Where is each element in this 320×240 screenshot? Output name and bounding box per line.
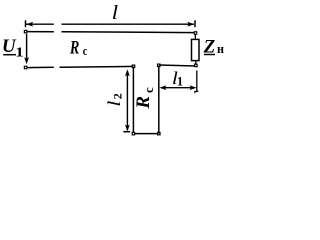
label U1 <box>2 36 24 59</box>
svg-text:с: с <box>83 43 88 58</box>
node load bottom terminal <box>195 64 198 67</box>
svg-text:1: 1 <box>177 75 183 89</box>
node input top terminal <box>24 30 27 32</box>
wire stub right conductor <box>158 65 160 133</box>
wire bottom conductor right segment <box>159 65 196 66</box>
svg-text:R: R <box>133 96 154 110</box>
dimension l1 arrow (horizontal) <box>161 87 195 89</box>
label l1 <box>172 68 183 88</box>
label Rc (stub, rotated) <box>133 87 156 110</box>
resistor Zн (load rectangle) <box>192 39 200 60</box>
node stub right top terminal <box>158 64 161 67</box>
arrowhead left of dimension l <box>26 22 33 27</box>
svg-text:R: R <box>69 38 79 59</box>
svg-text:н: н <box>217 41 224 56</box>
label Rc (main line) <box>69 38 87 59</box>
extension line right of dimension l1 <box>196 71 198 93</box>
wire stub shorting bar <box>133 133 158 135</box>
svg-text:l: l <box>112 2 119 24</box>
svg-text:с: с <box>141 87 156 93</box>
load Zн wire bottom <box>195 61 197 65</box>
label Zн <box>203 36 225 57</box>
wire dimension line l (top) <box>26 23 194 25</box>
label l2 (rotated) <box>104 93 125 107</box>
tick foot of extension line <box>194 90 198 93</box>
wire stub left conductor <box>132 67 134 134</box>
node stub bottom left terminal <box>132 132 135 135</box>
tick left of dimension l <box>25 20 27 27</box>
node input bottom terminal <box>24 66 27 69</box>
arrow U1 (voltage arrow down) <box>26 34 28 59</box>
wire top conductor <box>27 31 194 34</box>
tick bottom of dimension l2 <box>123 131 130 133</box>
svg-text:l: l <box>104 101 124 107</box>
dimension l2 arrow (vertical) <box>126 71 128 130</box>
node load top terminal <box>194 32 197 35</box>
node stub left top terminal <box>132 65 135 68</box>
load Zн wire top <box>194 34 196 39</box>
arrowhead right of dimension l <box>187 22 194 27</box>
node stub bottom right terminal <box>158 132 161 135</box>
tick right of dimension l <box>194 20 196 27</box>
wire bottom conductor left segment <box>27 66 133 67</box>
svg-text:1: 1 <box>15 44 24 59</box>
svg-text:2: 2 <box>111 93 125 99</box>
